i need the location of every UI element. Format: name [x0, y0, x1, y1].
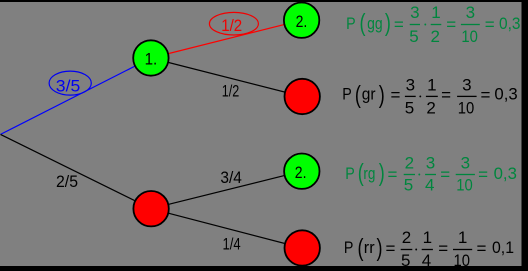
- svg-text:2/5: 2/5: [56, 172, 78, 191]
- svg-text:10: 10: [461, 27, 478, 46]
- svg-text:1: 1: [458, 228, 467, 247]
- svg-text:2.: 2.: [296, 12, 308, 31]
- svg-text:5: 5: [401, 251, 410, 270]
- svg-text:=: =: [446, 15, 456, 34]
- svg-text:P: P: [346, 14, 356, 33]
- svg-text:3: 3: [426, 153, 435, 172]
- formula row P(gr): [342, 76, 517, 118]
- svg-text:1/2: 1/2: [222, 81, 240, 100]
- svg-text:): ): [379, 159, 385, 187]
- svg-text:1/2: 1/2: [221, 16, 242, 35]
- node circle: red leaf rr: [285, 230, 320, 265]
- formula row P(rr): [344, 228, 514, 270]
- svg-text:3/4: 3/4: [220, 168, 242, 187]
- svg-text:10: 10: [456, 175, 473, 194]
- svg-text:3: 3: [410, 3, 419, 22]
- svg-text:1/4: 1/4: [223, 235, 241, 254]
- red ellipse around 1/2: [209, 12, 258, 35]
- svg-text:2: 2: [402, 228, 411, 247]
- svg-text:P: P: [342, 85, 352, 104]
- svg-text:3/5: 3/5: [56, 77, 80, 96]
- svg-text:): ): [377, 234, 383, 262]
- svg-text:1: 1: [427, 76, 436, 95]
- svg-text:=: =: [477, 239, 487, 258]
- svg-text:3: 3: [406, 76, 415, 95]
- node circle: red node first level: [133, 191, 168, 226]
- svg-text:2: 2: [426, 99, 435, 118]
- svg-text:5: 5: [409, 27, 418, 46]
- node circle: green node 1: [133, 40, 168, 75]
- blue ellipse around 3/5: [49, 71, 91, 95]
- svg-text:=: =: [441, 86, 451, 105]
- svg-text:=: =: [485, 15, 495, 34]
- wire: black branch node 1 to red leaf gr: [151, 58, 302, 97]
- svg-text:3: 3: [461, 153, 470, 172]
- wire: black branch root to red node: [1, 134, 152, 208]
- node circle: green node 2 bottom: [284, 154, 319, 189]
- formula row P(gg): [346, 3, 520, 46]
- svg-text:1: 1: [431, 3, 440, 22]
- svg-text:=: =: [438, 239, 448, 258]
- svg-text:0,3: 0,3: [499, 14, 521, 33]
- svg-text:=: =: [386, 239, 396, 258]
- formula row P(rg): [345, 153, 517, 194]
- svg-text:2.: 2.: [295, 163, 307, 182]
- svg-text:=: =: [394, 15, 404, 34]
- svg-text:4: 4: [422, 251, 431, 270]
- svg-text:1: 1: [423, 228, 432, 247]
- svg-text:): ): [379, 81, 385, 109]
- svg-text:0,1: 0,1: [492, 238, 514, 257]
- svg-text:2: 2: [430, 27, 439, 46]
- svg-text:2: 2: [405, 153, 414, 172]
- svg-text:rg: rg: [363, 164, 375, 183]
- svg-text:5: 5: [405, 99, 414, 118]
- wire: black branch red node to red leaf rr: [151, 209, 302, 248]
- svg-text:10: 10: [458, 99, 475, 118]
- wire: red branch node 1 to node 2 top: [151, 20, 302, 58]
- svg-text:=: =: [391, 86, 401, 105]
- svg-text:10: 10: [454, 251, 471, 270]
- svg-text:=: =: [388, 165, 398, 184]
- svg-text:gr: gr: [362, 85, 376, 104]
- svg-text:=: =: [481, 86, 491, 105]
- svg-text:rr: rr: [364, 238, 375, 257]
- svg-text:0,3: 0,3: [494, 164, 517, 183]
- node circle: green node 2 top: [284, 3, 319, 38]
- svg-text:=: =: [440, 165, 450, 184]
- svg-text:3: 3: [462, 76, 471, 95]
- svg-text:P: P: [344, 238, 354, 257]
- svg-text:gg: gg: [367, 14, 383, 33]
- svg-text:(: (: [360, 9, 366, 37]
- svg-text:1.: 1.: [145, 49, 158, 68]
- svg-text:4: 4: [425, 175, 434, 194]
- wire: blue branch root to node 1: [1, 58, 151, 134]
- svg-text:P: P: [345, 164, 355, 183]
- svg-text:=: =: [478, 165, 488, 184]
- svg-text:(: (: [355, 81, 361, 109]
- svg-text:3: 3: [466, 3, 475, 22]
- svg-text:5: 5: [404, 175, 413, 194]
- wire: black branch red node to node 2 bottom: [151, 171, 302, 209]
- node circle: red leaf gr: [285, 79, 320, 114]
- svg-text:0,3: 0,3: [494, 85, 517, 104]
- svg-text:): ): [385, 9, 391, 37]
